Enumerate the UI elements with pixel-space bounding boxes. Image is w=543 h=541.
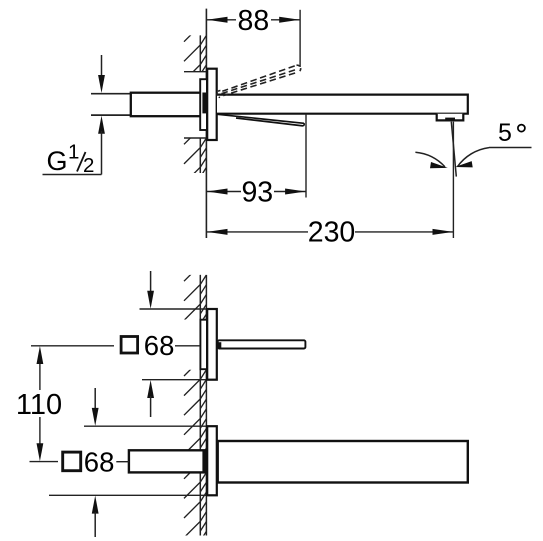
ext line plate2 top — [84, 425, 208, 427]
pipe dia bottom arrow / G1/2 leader — [98, 116, 105, 134]
wall hole edge (lower) — [184, 137, 206, 139]
plate2 height arrows — [94, 388, 96, 409]
svg-text:68: 68 — [144, 330, 175, 361]
concealed body (top view) — [200, 79, 207, 130]
ext line plate1 top — [140, 308, 208, 310]
escutcheon plate (top view) — [207, 69, 217, 140]
dim 88 line — [206, 19, 300, 21]
plate1 height arrows — [150, 271, 152, 293]
spout outline — [217, 95, 468, 114]
svg-text:5: 5 — [498, 119, 512, 147]
svg-text:G: G — [47, 146, 68, 176]
pipe end at wall (dark) — [202, 93, 206, 114]
pipe dia top arrow — [101, 55, 103, 78]
angle arc right — [458, 148, 490, 167]
aerator outlet — [445, 118, 455, 121]
escutcheon plate 2 (plan) — [207, 426, 217, 495]
square symbol plate2 — [63, 452, 81, 471]
handle bar (plan) — [218, 340, 306, 348]
square symbol plate1 — [121, 337, 138, 354]
ext line plate1 bottom — [142, 379, 208, 381]
wall band lines (bottom view) — [200, 275, 206, 536]
handle lever (rest position) — [218, 114, 305, 123]
5 deg spray direction line — [451, 122, 456, 177]
svg-text:110: 110 — [16, 389, 62, 421]
supply bar end at wall (dark) — [202, 450, 206, 472]
svg-text:2: 2 — [83, 154, 94, 177]
concealed valve body (plan) — [200, 320, 207, 370]
dim 88 right ext line — [299, 10, 301, 67]
wall face / extension line — [205, 9, 207, 238]
dim 230 line — [206, 231, 453, 233]
escutcheon plate 1 (plan) — [207, 309, 217, 380]
pipe union box — [131, 93, 207, 117]
center line plate2 — [30, 461, 59, 463]
wall hole edge (upper) — [184, 71, 206, 73]
aerator housing — [437, 114, 464, 121]
spout supply bar (plan) — [129, 450, 207, 472]
dim 110 line — [39, 358, 41, 390]
ext line plate2 bottom — [49, 494, 208, 496]
svg-text:230: 230 — [308, 217, 356, 249]
dim 93 line — [206, 191, 306, 193]
5deg leader — [489, 147, 532, 149]
svg-text:93: 93 — [241, 176, 273, 208]
svg-text:88: 88 — [238, 5, 270, 37]
handle lever raised (dashed) — [217, 65, 301, 97]
spout (plan) — [218, 441, 468, 483]
supply pipe G1/2 — [91, 93, 132, 95]
center line plate1 — [31, 345, 114, 347]
dim 93 ext line — [305, 114, 307, 198]
svg-text:68: 68 — [84, 446, 115, 477]
angle arc left — [415, 152, 445, 167]
svg-text:1: 1 — [68, 140, 79, 163]
extension line at spout tip — [452, 122, 454, 238]
